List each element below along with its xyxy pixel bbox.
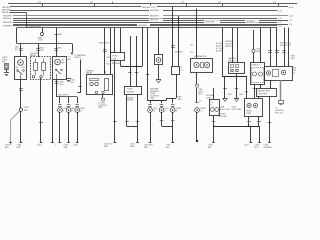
- svg-text:GRN/WHT: GRN/WHT: [246, 21, 256, 23]
- svg-text:RED: RED: [58, 48, 63, 50]
- svg-text:B7: B7: [191, 52, 193, 54]
- svg-text:RELAY: RELAY: [86, 72, 93, 75]
- svg-text:RED/YEL: RED/YEL: [150, 20, 158, 22]
- svg-text:GRN: GRN: [17, 147, 22, 149]
- svg-text:A-13: A-13: [278, 9, 282, 12]
- svg-text:GRN: GRN: [130, 146, 135, 148]
- svg-text:TURN: TURN: [127, 88, 133, 90]
- svg-text:C561: C561: [37, 144, 42, 146]
- svg-text:GRN ORN: GRN ORN: [205, 21, 215, 23]
- svg-text:LIGHT RES: LIGHT RES: [258, 93, 268, 95]
- svg-text:SW C720: SW C720: [275, 113, 283, 115]
- svg-text:GRN RED: GRN RED: [138, 25, 147, 27]
- svg-text:RED: RED: [64, 147, 69, 149]
- svg-text:C565: C565: [73, 144, 78, 146]
- svg-text:RED: RED: [24, 110, 29, 112]
- svg-text:B6: B6: [191, 45, 193, 47]
- svg-text:G401: G401: [228, 94, 232, 96]
- svg-text:C-10: C-10: [289, 16, 293, 18]
- svg-text:GRN/BLK: GRN/BLK: [264, 147, 273, 149]
- svg-text:LT: LT: [211, 105, 213, 107]
- svg-text:COMBINATION: COMBINATION: [193, 55, 207, 58]
- svg-text:TL: TL: [80, 111, 82, 113]
- svg-text:C-7: C-7: [289, 20, 292, 22]
- svg-text:BODY GND: BODY GND: [220, 109, 230, 111]
- svg-text:BODY GND: BODY GND: [232, 109, 242, 111]
- svg-text:C740: C740: [38, 40, 43, 42]
- svg-text:OFF: OFF: [22, 67, 25, 69]
- svg-text:FUSE: FUSE: [113, 56, 119, 58]
- svg-text:RED/BLK: RED/BLK: [175, 52, 183, 54]
- svg-text:BLU: BLU: [5, 147, 9, 149]
- svg-text:BLU/WHT: BLU/WHT: [112, 63, 121, 65]
- svg-text:BLU: BLU: [255, 147, 259, 149]
- svg-text:DAYTIME RUN: DAYTIME RUN: [258, 90, 271, 93]
- svg-text:RELAY: RELAY: [30, 54, 37, 57]
- svg-text:RED: RED: [60, 82, 65, 84]
- svg-text:RED/GRN: RED/GRN: [3, 22, 12, 24]
- svg-text:RED: RED: [40, 48, 45, 50]
- svg-text:WHT/BLK C741: WHT/BLK C741: [142, 7, 155, 9]
- svg-text:DAYTIME LTS: DAYTIME LTS: [99, 42, 112, 45]
- svg-text:GRN: GRN: [58, 34, 63, 36]
- svg-text:RED/BLU: RED/BLU: [2, 12, 11, 14]
- svg-text:TL: TL: [63, 111, 65, 113]
- svg-text:GRN/ORN: GRN/ORN: [218, 116, 227, 118]
- svg-text:C-12: C-12: [278, 18, 282, 20]
- svg-text:A-5: A-5: [68, 58, 71, 61]
- svg-text:RED: RED: [15, 47, 20, 49]
- svg-text:GRN/BLK: GRN/BLK: [126, 100, 134, 102]
- svg-text:TURN: TURN: [246, 113, 252, 115]
- svg-text:RED/YEL C-3: RED/YEL C-3: [280, 45, 291, 47]
- svg-text:ORN: ORN: [244, 92, 249, 94]
- svg-text:C5: C5: [199, 101, 201, 103]
- svg-text:SWITCH: SWITCH: [228, 61, 236, 63]
- svg-text:C-2: C-2: [278, 26, 281, 28]
- svg-text:TAILLIGHTS: TAILLIGHTS: [58, 94, 69, 97]
- svg-text:LIGHTS: LIGHTS: [74, 57, 82, 59]
- svg-text:RED/BLK: RED/BLK: [3, 18, 12, 20]
- svg-text:C-9: C-9: [278, 22, 281, 24]
- svg-text:C-6: C-6: [289, 24, 292, 26]
- svg-text:TO DASH FUSE: TO DASH FUSE: [27, 25, 42, 28]
- svg-text:A-16: A-16: [289, 6, 293, 9]
- svg-text:RED: RED: [144, 147, 149, 149]
- svg-text:B-8 WHT: B-8 WHT: [216, 51, 224, 53]
- svg-text:WHT/RED: WHT/RED: [150, 10, 159, 12]
- svg-text:C552: C552: [244, 144, 249, 146]
- svg-text:WHT: WHT: [291, 58, 295, 60]
- svg-text:SIGNAL: SIGNAL: [127, 91, 134, 94]
- svg-text:C1: C1: [293, 73, 295, 75]
- svg-text:G402: G402: [239, 94, 243, 96]
- svg-text:RED/WHT: RED/WHT: [150, 15, 160, 17]
- svg-text:TL: TL: [71, 111, 73, 113]
- svg-text:GRN/RED: GRN/RED: [3, 26, 12, 28]
- svg-text:TURN RLY: TURN RLY: [251, 65, 261, 67]
